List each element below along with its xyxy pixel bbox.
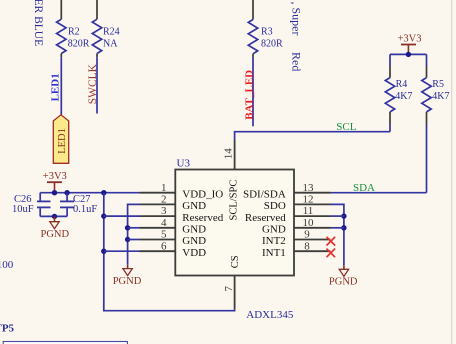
svg-text:13: 13 [303, 182, 315, 194]
wire pin4 [128, 227, 140, 229]
svg-text:6: 6 [161, 240, 167, 252]
pin 8 [294, 250, 331, 252]
svg-text:R2: R2 [68, 26, 80, 37]
wire +3V3 bar R4 R5 [390, 53, 427, 55]
ground PGND 2 [127, 265, 129, 269]
svg-text:8: 8 [304, 240, 310, 252]
svg-text:BAT_LED: BAT_LED [243, 70, 255, 120]
testpoint box [3, 342, 127, 344]
resistor R4 [385, 54, 394, 131]
pin 11 [294, 215, 331, 217]
svg-text:LED1: LED1 [49, 73, 61, 101]
svg-text:4K7: 4K7 [432, 91, 449, 102]
svg-text:SDA: SDA [353, 182, 375, 194]
svg-text:820R: 820R [261, 39, 283, 50]
svg-text:+3V3: +3V3 [397, 33, 421, 44]
svg-text:SDI/SDA: SDI/SDA [243, 188, 286, 200]
svg-text:PGND: PGND [113, 276, 142, 287]
svg-text:ADXL345: ADXL345 [246, 309, 294, 321]
pin 10 [294, 227, 331, 229]
svg-text:5: 5 [161, 229, 167, 241]
wire cap bottom [40, 215, 67, 217]
svg-text:R4: R4 [396, 79, 408, 90]
junction [341, 213, 346, 218]
wire SDO rail [331, 204, 344, 265]
junction [125, 237, 130, 242]
svg-text:14: 14 [223, 148, 235, 160]
svg-text:4: 4 [161, 217, 167, 229]
svg-text:INT1: INT1 [262, 247, 286, 259]
wire rail x103 CS [104, 193, 235, 311]
svg-text:100: 100 [0, 259, 14, 271]
svg-text:PGND: PGND [329, 276, 358, 287]
svg-text:INT2: INT2 [262, 235, 286, 247]
pin 6 [140, 250, 176, 252]
resistor R5 [422, 54, 431, 124]
wire rail x127 GND [128, 204, 140, 264]
svg-text:3: 3 [161, 205, 167, 217]
pin 1 [140, 192, 176, 194]
svg-text:SCL/SPC: SCL/SPC [229, 180, 240, 221]
pin 14 top [234, 140, 236, 170]
pin 4 [140, 227, 176, 229]
ground PGND 3 [343, 265, 345, 269]
pin 2 [140, 203, 176, 205]
junction [52, 190, 57, 195]
wire R2 to port LED1 [60, 57, 62, 115]
wire pin10 [331, 227, 344, 229]
svg-text:2: 2 [161, 194, 167, 206]
pin 12 [294, 203, 331, 205]
junction [64, 190, 69, 195]
svg-text:9: 9 [304, 229, 310, 241]
svg-text:NA: NA [103, 39, 118, 50]
svg-text:12: 12 [303, 194, 314, 206]
pin 5 [140, 239, 176, 241]
svg-text:4K7: 4K7 [395, 91, 412, 102]
svg-text:VDD: VDD [182, 247, 206, 259]
sheet edge [451, 0, 453, 344]
svg-text:PGND: PGND [41, 229, 70, 240]
svg-text:Reserved: Reserved [245, 212, 286, 224]
wire pin6 [104, 250, 140, 252]
svg-text:GND: GND [182, 235, 206, 247]
junction [341, 225, 346, 230]
capacitor C26 [37, 193, 51, 217]
svg-text:+3V3: +3V3 [43, 171, 67, 182]
svg-text:TP5: TP5 [0, 323, 15, 335]
svg-text:10: 10 [303, 217, 315, 229]
wire SWCLK stub [96, 57, 98, 113]
junction [101, 249, 106, 254]
svg-text:R3: R3 [261, 26, 273, 37]
junction [101, 213, 106, 218]
svg-text:GND: GND [182, 200, 206, 212]
junction [406, 52, 411, 57]
IC U3 body [175, 170, 294, 276]
svg-text:LED1: LED1 [57, 128, 68, 154]
junction [101, 190, 106, 195]
svg-text:, Super: , Super [290, 2, 304, 36]
wire BAT_LED stub [252, 58, 254, 127]
resistor R24 [92, 0, 101, 57]
wire R5 to SDA [426, 125, 428, 193]
svg-text:CS: CS [230, 255, 241, 268]
junction [125, 225, 130, 230]
svg-text:ER BLUE: ER BLUE [32, 0, 44, 46]
svg-text:1: 1 [161, 182, 167, 194]
no connect X pin 8 [327, 249, 336, 258]
svg-text:R5: R5 [432, 79, 444, 90]
capacitor C27 [60, 193, 74, 217]
no connect X pin 9 [327, 237, 336, 246]
wire VDD rail top [40, 192, 139, 194]
svg-text:SDO: SDO [264, 200, 286, 212]
svg-text:SWCLK: SWCLK [87, 63, 99, 104]
port LED1 [53, 115, 68, 164]
svg-text:Reserved: Reserved [182, 212, 223, 224]
svg-text:820R: 820R [68, 39, 90, 50]
svg-text:11: 11 [303, 205, 314, 217]
svg-text:VDD_IO: VDD_IO [182, 188, 223, 200]
resistor R3 [248, 0, 257, 58]
wire pin11 [331, 215, 344, 217]
svg-text:R24: R24 [103, 26, 120, 37]
pin 13 [294, 192, 331, 194]
svg-text:10uF: 10uF [12, 204, 34, 215]
wire pin3 [104, 215, 140, 217]
wire pin5 [128, 239, 140, 241]
ground PGND 1 [54, 216, 56, 221]
svg-text:SCL: SCL [336, 121, 356, 133]
resistor R2 [57, 0, 66, 57]
pin 3 [140, 215, 176, 217]
svg-text:GND: GND [262, 224, 286, 236]
svg-text:7: 7 [223, 286, 235, 292]
svg-text:U3: U3 [177, 158, 191, 170]
pin 7 bottom [234, 276, 236, 309]
svg-text:Red: Red [290, 52, 304, 71]
svg-text:GND: GND [182, 224, 206, 236]
svg-text:0.1uF: 0.1uF [73, 204, 97, 215]
pin 9 [294, 239, 331, 241]
wire SCL [235, 132, 390, 140]
wire SDA [331, 192, 427, 194]
junction [52, 214, 57, 219]
